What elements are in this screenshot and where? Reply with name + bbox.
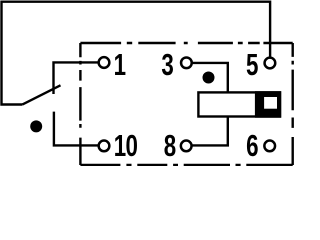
svg-text:5: 5	[246, 47, 258, 81]
svg-text:1: 1	[114, 47, 126, 81]
svg-text:6: 6	[246, 129, 258, 163]
svg-text:1: 1	[114, 129, 126, 163]
svg-text:8: 8	[164, 129, 176, 163]
svg-text:0: 0	[125, 129, 137, 163]
svg-text:3: 3	[161, 47, 173, 81]
